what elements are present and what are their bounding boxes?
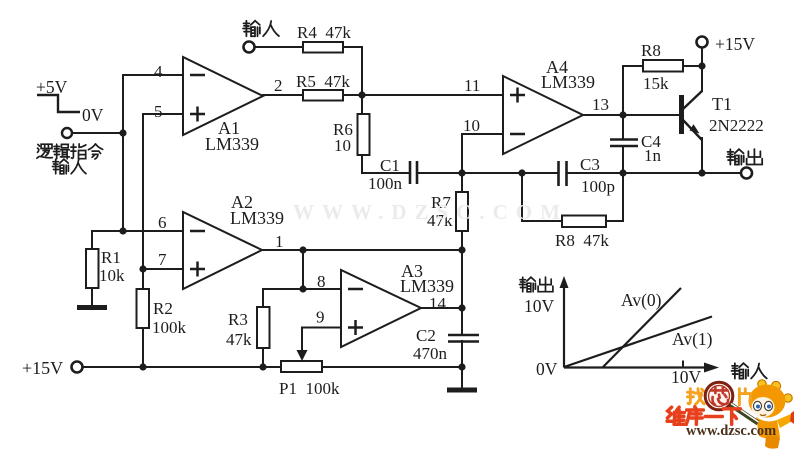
node B junction — [358, 91, 365, 98]
wire A3 output pin14 — [421, 307, 462, 309]
svg-text:5: 5 — [154, 102, 163, 121]
svg-text:10: 10 — [334, 136, 351, 155]
svg-text:C1: C1 — [380, 156, 400, 175]
resistor R5 — [303, 90, 343, 101]
resistor R4 — [303, 42, 343, 53]
node pin14 junction — [458, 304, 465, 311]
op-amp A4 — [503, 76, 583, 154]
wire R7 node down to C2 — [461, 250, 463, 335]
wire +15V rail right — [322, 366, 462, 368]
resistor R2 — [137, 289, 150, 328]
node feedback left junction — [518, 169, 525, 176]
watermark mascot — [749, 380, 794, 449]
resistor R8 47k feedback — [562, 216, 606, 228]
svg-text:R8: R8 — [641, 41, 661, 60]
svg-text:4: 4 — [154, 62, 163, 81]
label 输出 (graph) — [520, 277, 553, 292]
wire R6 to C1 — [362, 155, 409, 173]
svg-text:13: 13 — [592, 95, 609, 114]
resistor R8 15k — [643, 60, 683, 72]
ground C2 — [447, 388, 477, 393]
wire pin10 A4 — [462, 134, 503, 173]
wire node D to output — [623, 172, 741, 174]
label 输入 (top terminal) — [243, 21, 279, 36]
wire pin5 A1 — [143, 114, 183, 269]
ground R1 — [77, 305, 107, 310]
wire R3 top — [262, 289, 264, 307]
node C2 rail junction — [458, 363, 465, 370]
svg-text:LM339: LM339 — [205, 134, 259, 154]
wire C4 to node D — [622, 146, 624, 173]
wire pin1 to R7 node — [303, 249, 462, 251]
node C junction — [458, 169, 465, 176]
wire +15V rail left — [82, 366, 281, 368]
resistor R7 — [456, 192, 468, 231]
node D junction — [619, 169, 626, 176]
svg-text:10k: 10k — [99, 266, 125, 285]
svg-text:0V: 0V — [536, 359, 558, 379]
step waveform +5V/0V — [37, 95, 80, 112]
svg-text:T1: T1 — [712, 94, 732, 114]
svg-text:2: 2 — [274, 76, 283, 95]
svg-text:LM339: LM339 — [400, 276, 454, 296]
terminal logic input — [62, 128, 72, 138]
node pin6 junction — [119, 227, 126, 234]
svg-text:11: 11 — [464, 76, 480, 95]
wire A2 output pin1 — [262, 249, 303, 251]
wire A4 output node 13 — [583, 114, 623, 116]
node pin1 junction — [299, 246, 306, 253]
capacitor C1 — [410, 161, 417, 184]
svg-text:10V: 10V — [524, 296, 555, 316]
resistor R6 — [358, 114, 370, 155]
node R8 +15V junction — [698, 62, 705, 69]
wire node B to R6 — [361, 95, 363, 114]
capacitor C2 — [448, 335, 479, 342]
terminal +15V top right — [697, 37, 708, 48]
svg-text:6: 6 — [158, 213, 167, 232]
label 输入 (logic) — [53, 159, 87, 174]
graph tick 10V — [682, 361, 684, 368]
svg-text:100n: 100n — [368, 174, 403, 193]
svg-text:www.dzsc.com: www.dzsc.com — [686, 423, 776, 439]
wire R2 bottom to rail — [142, 328, 144, 367]
graph line Av(1) — [564, 317, 712, 368]
wire node B to A4 pin11 — [362, 94, 503, 96]
graph x-axis — [564, 366, 708, 368]
graph y-axis — [563, 284, 565, 368]
svg-text:470n: 470n — [413, 344, 448, 363]
svg-text:100p: 100p — [581, 177, 615, 196]
svg-text:LM339: LM339 — [541, 72, 595, 92]
wire node 13 to C4 — [622, 115, 624, 139]
wire R8 to +15V rail — [683, 65, 702, 67]
svg-text:WWW.DZSC.COM: WWW.DZSC.COM — [293, 200, 568, 224]
svg-text:+15V: +15V — [22, 358, 63, 378]
wire node C to R7 — [461, 173, 463, 192]
svg-text:P1 100k: P1 100k — [279, 379, 340, 398]
svg-text:100k: 100k — [152, 318, 187, 337]
terminal output — [741, 168, 752, 179]
node pin8 junction — [299, 285, 306, 292]
svg-text:1n: 1n — [644, 146, 662, 165]
svg-text:R2: R2 — [153, 299, 173, 318]
transistor T1 — [682, 91, 703, 140]
wire node A down to pin6 — [123, 133, 183, 231]
wire pin8 vertical — [302, 250, 304, 289]
node 13 junction — [619, 111, 626, 118]
wire ground stem — [461, 367, 463, 388]
node R7 bottom junction — [458, 246, 465, 253]
svg-text:0V: 0V — [82, 105, 104, 125]
terminal +15V bottom left — [72, 362, 83, 373]
wire A1 output to R5 — [263, 94, 303, 96]
wire +15V terminal down to collector — [701, 48, 703, 91]
svg-text:14: 14 — [429, 294, 447, 313]
wire feedback left leg — [522, 173, 562, 221]
label 输出 (right) — [727, 149, 762, 164]
svg-text:R5 47k: R5 47k — [296, 72, 350, 91]
wire pin8 horizontal — [263, 288, 341, 290]
wire feedback right leg — [606, 173, 623, 221]
svg-text:Av(0): Av(0) — [621, 290, 662, 310]
svg-text:10: 10 — [463, 116, 480, 135]
wire R5 to node B — [343, 94, 362, 96]
watermark magnifier with 芯 — [705, 382, 758, 423]
node pin7 junction — [139, 265, 146, 272]
watermark 片 — [739, 389, 750, 405]
node A junction — [119, 129, 126, 136]
wire C2 to rail — [461, 341, 463, 367]
svg-text:8: 8 — [317, 272, 326, 291]
svg-text:+15V: +15V — [715, 34, 755, 54]
watermark 找 — [687, 389, 704, 405]
op-amp A2 — [183, 212, 262, 289]
wire input terminal to R4 — [254, 46, 303, 48]
wire T1 base — [623, 114, 679, 116]
wire logic input — [73, 132, 123, 134]
wire node C to C3 — [462, 172, 558, 174]
svg-text:R1: R1 — [101, 248, 121, 267]
svg-text:10V: 10V — [671, 367, 702, 387]
wire emitter to output line — [701, 138, 703, 173]
wire R2 top — [142, 269, 144, 289]
svg-text:7: 7 — [158, 250, 167, 269]
svg-text:15k: 15k — [643, 74, 669, 93]
wire R3 bottom to rail — [262, 348, 264, 367]
svg-text:R8 47k: R8 47k — [555, 231, 609, 250]
resistor R3 — [257, 307, 270, 348]
capacitor C4 — [610, 140, 638, 147]
wire C3 to node D — [567, 172, 623, 174]
svg-text:9: 9 — [316, 308, 325, 327]
svg-text:C3: C3 — [580, 155, 600, 174]
label 输入 (graph) — [732, 363, 767, 378]
svg-text:C2: C2 — [416, 326, 436, 345]
wire R1 branch — [92, 231, 123, 249]
wire pin9 to P1 wiper — [302, 328, 341, 351]
resistor R1 — [86, 249, 99, 288]
svg-text:R4 47k: R4 47k — [297, 23, 351, 42]
wire C1 to node C — [417, 172, 462, 174]
svg-text:+5V: +5V — [36, 77, 68, 97]
svg-text:2N2222: 2N2222 — [709, 116, 764, 135]
svg-text:Av(1): Av(1) — [672, 329, 713, 349]
wire pin4 A1 — [123, 75, 183, 133]
wire node 13 up to R8 — [623, 66, 643, 115]
svg-text:47k: 47k — [226, 330, 252, 349]
capacitor C3 — [559, 161, 567, 186]
svg-text:LM339: LM339 — [230, 208, 284, 228]
node emitter junction — [698, 169, 705, 176]
watermark 维库一下 — [667, 407, 740, 425]
wire R7 to A2 output line — [461, 231, 463, 250]
wire pin7 A2 — [143, 268, 183, 270]
label 逻辑指令 — [37, 144, 103, 159]
graph line Av(0) — [603, 288, 681, 367]
svg-text:1: 1 — [275, 232, 284, 251]
terminal input top — [244, 42, 255, 53]
node R2 rail junction — [139, 363, 146, 370]
wire R4 to node B — [343, 47, 362, 95]
potentiometer P1 — [281, 350, 322, 372]
node R3 rail junction — [259, 363, 266, 370]
op-amp A1 — [183, 57, 263, 135]
svg-text:R3: R3 — [228, 310, 248, 329]
op-amp A3 — [341, 270, 421, 347]
wire R1 to ground — [91, 288, 93, 306]
